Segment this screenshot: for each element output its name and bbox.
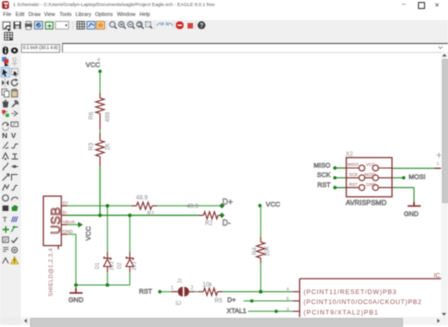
svg-text:XTAL1: XTAL1: [227, 308, 247, 315]
svg-text:R3: R3: [89, 142, 95, 150]
svg-text:J1: J1: [177, 279, 183, 285]
svg-text:D+: D+: [63, 201, 69, 206]
svg-text:SCK: SCK: [349, 172, 358, 177]
svg-text:48.9: 48.9: [136, 196, 148, 202]
svg-text:SHIELD@1,2,3,4: SHIELD@1,2,3,4: [49, 248, 55, 297]
svg-text:1: 1: [171, 286, 174, 292]
svg-text:(PCINT9/XTAL2)PB1: (PCINT9/XTAL2)PB1: [304, 310, 379, 317]
svg-text:N: N: [2, 131, 7, 140]
svg-text:1K: 1K: [105, 143, 111, 150]
svg-text:T: T: [3, 215, 8, 224]
svg-text:D+: D+: [227, 297, 236, 304]
svg-text:GND: GND: [404, 211, 419, 218]
svg-text:RST: RST: [349, 182, 358, 187]
svg-text:49.9: 49.9: [187, 204, 199, 210]
svg-text:R2: R2: [205, 221, 213, 227]
svg-text:RST: RST: [139, 289, 152, 296]
svg-text:D-: D-: [222, 219, 231, 228]
svg-text:2: 2: [191, 286, 194, 292]
svg-text:?: ?: [200, 22, 204, 29]
svg-text:MISO: MISO: [314, 162, 331, 169]
svg-text:(PCINT11/RESET/DW)PB3: (PCINT11/RESET/DW)PB3: [304, 289, 397, 296]
svg-text:MOSI: MOSI: [409, 174, 426, 181]
svg-text:10k: 10k: [203, 283, 214, 289]
svg-text:X2: X2: [346, 152, 354, 158]
svg-text:GND: GND: [366, 182, 376, 187]
svg-text:R6: R6: [89, 111, 95, 119]
svg-text:IC1: IC1: [434, 272, 444, 279]
svg-text:AVRISPSMD: AVRISPSMD: [346, 200, 387, 207]
svg-text:VCC: VCC: [366, 162, 375, 167]
svg-text:VCC: VCC: [86, 62, 100, 69]
svg-text:(PCINT10/INT0/OC0A/CKOUT)PB2: (PCINT10/INT0/OC0A/CKOUT)PB2: [304, 299, 422, 306]
svg-text:MOSI: MOSI: [365, 172, 376, 177]
svg-text:SCK: SCK: [317, 172, 331, 179]
svg-text:VBUS: VBUS: [63, 220, 76, 225]
svg-text:R1: R1: [147, 212, 155, 218]
svg-text:MISO: MISO: [348, 162, 360, 167]
svg-text:5: 5: [286, 296, 289, 302]
svg-text:VCC: VCC: [86, 226, 93, 240]
svg-text:D1: D1: [95, 262, 101, 269]
svg-text:SJ: SJ: [175, 301, 181, 307]
svg-text:3V3: 3V3: [110, 261, 116, 270]
svg-text:V: V: [11, 131, 16, 140]
svg-text:VCC: VCC: [266, 202, 280, 209]
svg-text:GND: GND: [63, 229, 74, 234]
svg-text:RST: RST: [317, 182, 330, 189]
svg-text:4: 4: [286, 287, 289, 293]
svg-text:3: 3: [286, 307, 289, 313]
svg-text:D-: D-: [63, 210, 68, 215]
svg-text:1: 1: [437, 161, 440, 167]
svg-text:R5: R5: [215, 298, 223, 304]
svg-text:GND: GND: [68, 297, 83, 304]
svg-text:D2: D2: [117, 262, 123, 269]
svg-text:499: 499: [105, 111, 111, 122]
svg-text:D+: D+: [222, 198, 233, 207]
svg-text:3V3: 3V3: [132, 261, 138, 270]
svg-text:10K: 10K: [265, 246, 271, 257]
svg-text:USB: USB: [48, 207, 63, 235]
svg-text:R4: R4: [253, 247, 259, 255]
